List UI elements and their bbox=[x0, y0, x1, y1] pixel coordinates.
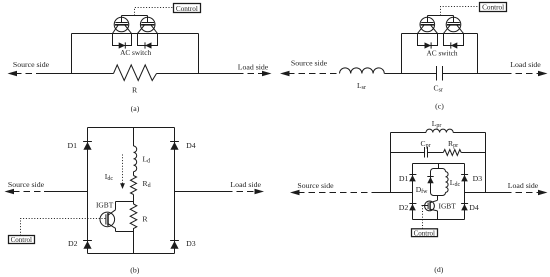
wire Lpr top line right d bbox=[453, 132, 485, 134]
inductor Ldc bbox=[446, 172, 449, 193]
wire bridge left vertical d bbox=[412, 164, 414, 220]
inductor Lpr bbox=[426, 129, 453, 132]
wire bridge top horizontal b bbox=[88, 127, 175, 129]
svg-text:Control: Control bbox=[176, 5, 198, 13]
wire bridge right vertical b bbox=[174, 128, 176, 254]
resistor R (a) bbox=[114, 65, 157, 81]
svg-text:Source side: Source side bbox=[13, 60, 50, 69]
svg-text:Control: Control bbox=[414, 229, 435, 237]
svg-text:R: R bbox=[132, 85, 138, 94]
wire main line c right solid bbox=[443, 73, 506, 75]
wire branch top horizontal c bbox=[402, 33, 478, 35]
wire main line b right dashed bbox=[226, 191, 255, 193]
svg-text:D4: D4 bbox=[469, 203, 479, 212]
wire branch left vertical c bbox=[401, 34, 403, 74]
diode Dfw bbox=[427, 177, 433, 184]
wire main line b right solid bbox=[175, 191, 227, 193]
wire main line a left dashed bbox=[15, 73, 41, 75]
svg-text:Load side: Load side bbox=[238, 62, 269, 71]
current arrow Idc dotted bbox=[122, 155, 124, 184]
control box b bbox=[9, 236, 35, 244]
wire control dotted b bbox=[21, 219, 106, 236]
wire bridge left vertical b bbox=[87, 128, 89, 254]
IGBT Q1 (b) bbox=[100, 210, 116, 229]
arrowhead source side b bbox=[5, 189, 15, 194]
wire main line a left solid bbox=[41, 73, 114, 75]
diode Dr4 loop (c) bbox=[444, 34, 464, 49]
wire main line c left dashed bbox=[288, 73, 340, 75]
IGBT T4 (c) bbox=[444, 16, 464, 34]
arrowhead Idc bbox=[120, 183, 125, 189]
diode D4 d bbox=[461, 204, 468, 211]
arrowhead source side a bbox=[8, 71, 18, 76]
diode D2 bbox=[83, 241, 92, 249]
wire control dotted a bbox=[135, 8, 174, 16]
svg-text:Control: Control bbox=[482, 4, 504, 12]
svg-text:IGBT: IGBT bbox=[96, 201, 114, 210]
wire gate connect a bbox=[122, 15, 148, 17]
control box d bbox=[412, 229, 438, 237]
inductor Lsr bbox=[340, 68, 385, 74]
control box c bbox=[480, 3, 507, 12]
wire control dotted c bbox=[441, 7, 480, 16]
diode D1 bbox=[83, 142, 92, 150]
svg-text:D4: D4 bbox=[186, 141, 196, 150]
svg-text:(c): (c) bbox=[435, 102, 444, 111]
wire inner loop bottom tap d bbox=[437, 196, 439, 220]
arrowhead load side b bbox=[255, 189, 265, 194]
diode D2 d bbox=[409, 204, 416, 211]
control box a bbox=[174, 4, 201, 13]
svg-text:D2: D2 bbox=[68, 239, 78, 248]
wire main line d left solid bbox=[372, 192, 413, 194]
svg-text:Load side: Load side bbox=[508, 181, 539, 190]
capacitor Cpr bbox=[425, 147, 428, 158]
diode Dr2 loop (a) bbox=[138, 34, 158, 49]
wire main line a right solid bbox=[157, 73, 238, 75]
wire branch right vertical c bbox=[477, 34, 479, 74]
wire bridge top horizontal d bbox=[413, 163, 465, 165]
svg-text:R: R bbox=[142, 215, 148, 224]
wire Cpr to Rpr d bbox=[428, 152, 444, 154]
wire main line c mid solid bbox=[384, 73, 436, 75]
IGBT Q2 (d) bbox=[422, 200, 438, 211]
svg-text:Source side: Source side bbox=[8, 180, 45, 189]
wire center branch mid1 b bbox=[133, 172, 135, 176]
wire main line d right solid bbox=[465, 192, 506, 194]
wire inner loop d bbox=[431, 169, 446, 196]
wire branch right vertical a bbox=[198, 34, 200, 74]
svg-text:Load side: Load side bbox=[230, 180, 261, 189]
arrowhead load side d bbox=[538, 190, 548, 195]
svg-text:D1: D1 bbox=[68, 141, 78, 150]
IGBT T2 (a) bbox=[138, 16, 158, 34]
svg-text:IGBT: IGBT bbox=[439, 202, 457, 211]
wire bridge right vertical d bbox=[464, 164, 466, 220]
wire Cpr Rpr line left d bbox=[391, 152, 425, 154]
arrowhead load side c bbox=[538, 71, 548, 76]
wire branch left vertical a bbox=[71, 34, 73, 74]
svg-text:(b): (b) bbox=[130, 266, 139, 275]
diode D4 bbox=[170, 142, 179, 150]
svg-text:Source side: Source side bbox=[291, 59, 328, 68]
wire center branch top b bbox=[133, 128, 135, 147]
wire Lpr top line left d bbox=[391, 132, 427, 134]
svg-text:AC switch: AC switch bbox=[426, 48, 457, 57]
svg-text:Control: Control bbox=[11, 236, 32, 244]
wire center branch bottom b bbox=[133, 231, 135, 254]
svg-text:D3: D3 bbox=[186, 239, 196, 248]
arrowhead load side a bbox=[262, 71, 272, 76]
svg-text:(d): (d) bbox=[434, 265, 443, 274]
svg-text:D2: D2 bbox=[399, 203, 409, 212]
wire main line c right dashed bbox=[505, 73, 538, 75]
wire bridge bottom horizontal b bbox=[88, 253, 175, 255]
diode D3 d bbox=[461, 175, 468, 182]
diode D3 bbox=[170, 241, 179, 249]
wire bridge bottom horizontal d bbox=[413, 219, 465, 221]
resistor Rd bbox=[131, 176, 137, 195]
wire main line d right dashed bbox=[505, 192, 538, 194]
diode Dr3 loop (c) bbox=[418, 34, 438, 49]
wire control dotted d bbox=[422, 206, 424, 229]
svg-text:D3: D3 bbox=[473, 174, 483, 183]
wire outer right vertical d bbox=[485, 133, 487, 193]
svg-text:Source side: Source side bbox=[297, 181, 334, 190]
wire main line b left dashed bbox=[13, 191, 44, 193]
svg-text:AC switch: AC switch bbox=[120, 48, 151, 57]
wire R parallel loop b bbox=[116, 202, 134, 232]
capacitor Csr bbox=[437, 66, 443, 81]
resistor R (b) bbox=[130, 204, 137, 231]
wire branch top horizontal a bbox=[72, 33, 199, 35]
inductor Ld bbox=[134, 146, 137, 172]
svg-text:Load side: Load side bbox=[510, 60, 541, 69]
wire main line b left solid bbox=[44, 191, 88, 193]
wire inner loop top tap d bbox=[438, 164, 440, 169]
wire main line d left dashed bbox=[298, 192, 372, 194]
resistor Rpr bbox=[443, 150, 461, 156]
svg-text:D1: D1 bbox=[399, 174, 409, 183]
svg-text:(a): (a) bbox=[131, 104, 140, 113]
wire gate connect c bbox=[428, 15, 454, 17]
wire Rpr line right d bbox=[461, 152, 485, 154]
wire main line a right dashed bbox=[237, 73, 262, 75]
arrowhead source side d bbox=[290, 190, 300, 195]
diode Dr1 loop (a) bbox=[113, 34, 132, 49]
wire center branch mid2 b bbox=[133, 195, 135, 205]
wire outer left vertical d bbox=[390, 133, 392, 193]
IGBT T3 (c) bbox=[418, 16, 438, 34]
IGBT T1 (a) bbox=[113, 16, 132, 34]
diode D1 d bbox=[409, 175, 416, 182]
arrowhead source side c bbox=[280, 71, 290, 76]
